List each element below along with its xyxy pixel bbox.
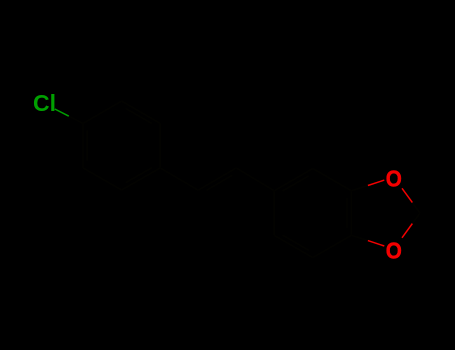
svg-text:O: O bbox=[386, 165, 402, 191]
svg-text:Cl: Cl bbox=[33, 90, 56, 116]
svg-text:O: O bbox=[386, 237, 402, 263]
